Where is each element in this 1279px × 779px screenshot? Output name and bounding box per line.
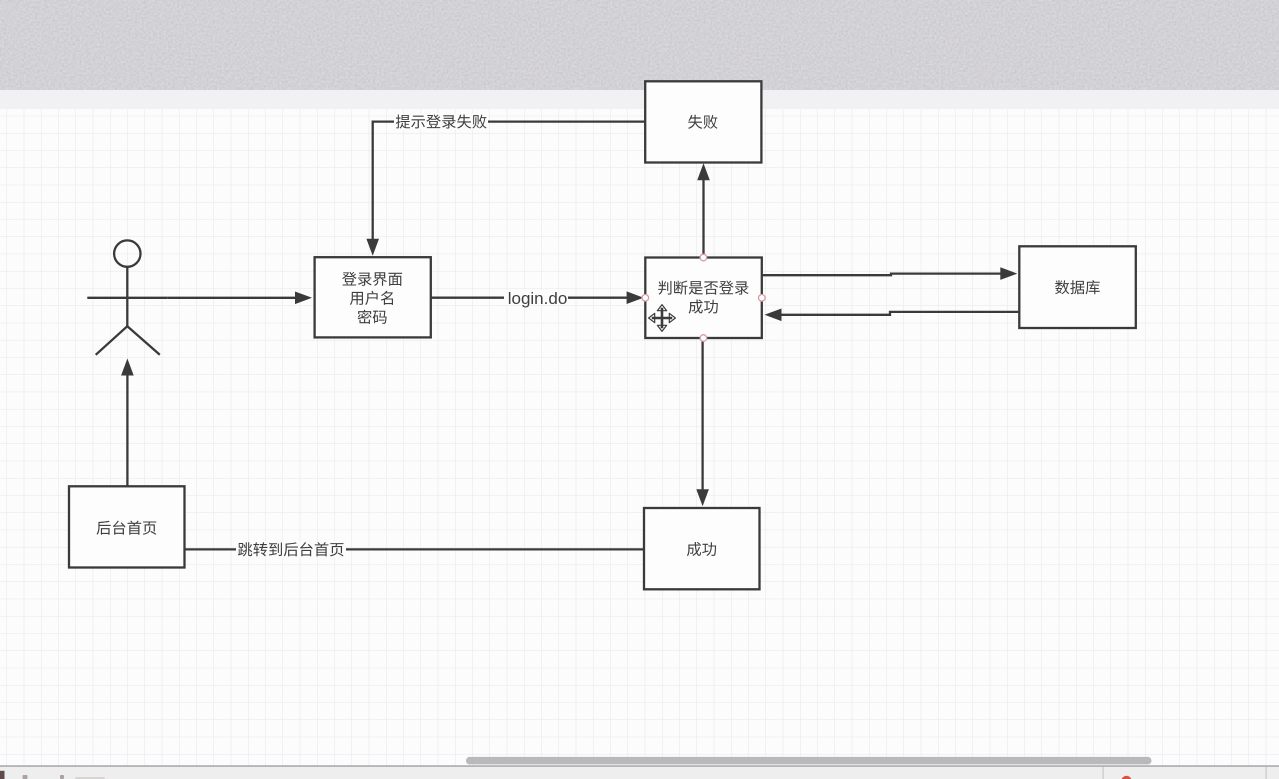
wire: actor to login box bbox=[167, 292, 312, 305]
horizontal scrollbar thumb bbox=[466, 757, 1152, 765]
bottom bar bbox=[0, 767, 1279, 779]
wire: judge box down to success box bbox=[696, 338, 709, 506]
wire: database box back to judge box (jog) bbox=[765, 309, 1020, 322]
box 登录界面/用户名/密码 (login) bbox=[315, 257, 431, 337]
wire: login box to judge box bbox=[430, 291, 644, 304]
toolbar band (grey textured header) bbox=[0, 0, 1279, 90]
actor (stick figure) bbox=[87, 240, 167, 354]
svg-text:login.do: login.do bbox=[508, 289, 568, 308]
menu strip bbox=[0, 90, 1279, 109]
wire: judge box up to fail box bbox=[697, 163, 710, 257]
wire: success box to backstage box bbox=[185, 548, 644, 550]
box 后台首页 (backstage home) bbox=[69, 486, 185, 567]
box 成功 (success) bbox=[644, 508, 760, 589]
selection handles (judge box) bbox=[642, 254, 765, 341]
wire: judge box to database box (jog) bbox=[762, 267, 1018, 280]
label background 提示登录失败 bbox=[394, 114, 488, 130]
faint bottom-left text bbox=[23, 775, 106, 779]
box 失败 (fail) bbox=[645, 81, 761, 162]
label background login.do bbox=[504, 290, 568, 305]
label background 跳转到后台首页 bbox=[236, 542, 346, 558]
taskbar dark icon bbox=[0, 771, 5, 779]
red circle icon (partially visible) bbox=[1121, 776, 1131, 779]
box 数据库 (database) bbox=[1019, 246, 1136, 328]
bottom bar separator 1 bbox=[1103, 767, 1104, 779]
bottom bar separator 2 bbox=[1266, 767, 1267, 779]
box 判断是否登录成功 (judge, selected) bbox=[645, 258, 762, 339]
wire: backstage box up to actor bbox=[121, 359, 134, 487]
wire: fail box to login box (elbow down) bbox=[366, 122, 645, 256]
label 跳转到后台首页 bbox=[238, 542, 344, 556]
move cursor icon bbox=[649, 305, 676, 332]
label 提示登录失败 bbox=[396, 114, 487, 128]
bottom separator line bbox=[0, 765, 1279, 766]
